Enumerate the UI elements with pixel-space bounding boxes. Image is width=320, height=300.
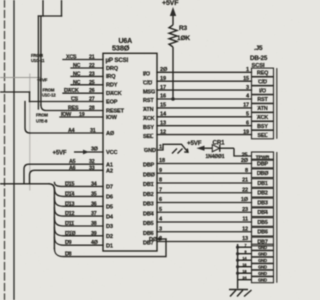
wire CS feed drop: [29, 92, 31, 102]
ground bus vertical: [238, 244, 252, 289]
wire top entry horizontal: [39, 15, 62, 17]
wire D8 wrap row: [54, 239, 166, 257]
wire IOW row pin 19: [60, 116, 103, 118]
wire RES row pin 28: [41, 105, 103, 111]
ground symbol: [229, 290, 252, 297]
wire SEL row chip12 to J5 pin19: [157, 134, 252, 136]
wire D0 stub to wrap: [157, 238, 166, 240]
wire faint +5VF feed horizontal: [0, 77, 41, 79]
wire DB2 row chip7 to J5 pin22: [157, 192, 252, 194]
IC ground squiggle symbol: [157, 144, 188, 153]
scan noise overlay: [0, 0, 1, 1]
wire BSY row chip13 to J5 pin6: [157, 125, 252, 127]
wire D10 row pin 39: [54, 227, 103, 235]
wire ACK row chip14 to J5 pin5: [157, 116, 252, 118]
wire DB0 row chip9 to J5 pin8: [157, 172, 252, 174]
wire top entry vA: [42, 0, 44, 16]
wire NC row pin 25: [71, 84, 103, 86]
wire I/O row chip20 to J5 pin1: [157, 71, 252, 73]
node R3 to RST junction: [171, 97, 175, 101]
wire RST row chip16 to J5 pin4: [157, 98, 252, 100]
node D0 junction dot: [158, 237, 161, 240]
wire VCC stub: [88, 151, 103, 153]
wire DACK feed from left: [0, 91, 30, 93]
wire D15 row pin 34: [54, 183, 103, 187]
wire ATN row chip15 to J5 pin17: [157, 107, 252, 109]
wire XCS row pin 21: [63, 59, 103, 61]
IC U6A body: [103, 53, 157, 251]
power +5VF arrow left: [197, 146, 205, 151]
connector outer edge group2: [276, 152, 278, 283]
wire DB7 row chip2 to J5 pin13: [157, 241, 252, 243]
wire top entry vB: [61, 0, 63, 16]
wire C/D row chip19 to J5 pin15: [157, 80, 252, 82]
power +5VF arrow top: [170, 7, 176, 16]
wire CS row pin 27: [30, 101, 104, 103]
wire NC row pin 23: [71, 75, 103, 77]
wire A4 row pin 31: [30, 132, 103, 134]
wire NC row pin 22: [71, 67, 103, 69]
wire DB1 row chip8 to J5 pin21: [157, 182, 252, 184]
power arrow +5VF into VCC: [74, 151, 84, 153]
wire DB5 row chip4 to J5 pin11: [157, 221, 252, 223]
resistor R3 10K: [169, 15, 177, 99]
wire DBP row chip18 to J5 pin20: [157, 163, 252, 165]
wire DB6 row chip3 to J5 pin12: [157, 231, 252, 233]
wire A6 row pin 33: [30, 170, 104, 184]
wire D13 row pin 36: [54, 198, 103, 206]
wire MSG row chip17 to J5 pin3: [157, 89, 252, 91]
wire vC riser to RES row (doubled scan line): [37, 16, 39, 109]
wire left vertical bus A: [4, 0, 6, 300]
wire data bus horizontal: [0, 183, 49, 185]
wire DACK row pin 26: [63, 92, 103, 94]
connector J5 pin boxes lower group: [252, 152, 274, 283]
wire left vertical bus B: [13, 0, 15, 300]
wire D11 row pin 38: [54, 218, 103, 226]
wire faint vertical artifact: [29, 74, 31, 190]
node ground bus junction dots: [236, 246, 239, 249]
connector J5 pin boxes top group: [252, 68, 274, 139]
diode CR1 symbol: [212, 145, 219, 152]
wire A4 riser: [25, 102, 30, 134]
wire DB3 row chip6 to J5 pin10: [157, 202, 252, 204]
ground stub wires: [238, 246, 252, 248]
connector outer edge group1: [276, 68, 278, 139]
wire D9 row pin 40: [54, 237, 103, 245]
wire D14 row pin 35: [54, 188, 103, 196]
wire A5 row pin 32: [24, 164, 103, 184]
wire faint +5VF feed drop: [40, 78, 42, 93]
wire D12 row pin 37: [54, 208, 103, 216]
wire data bus vertical: [49, 184, 54, 249]
wire DB4 row chip5 to J5 pin23: [157, 211, 252, 213]
